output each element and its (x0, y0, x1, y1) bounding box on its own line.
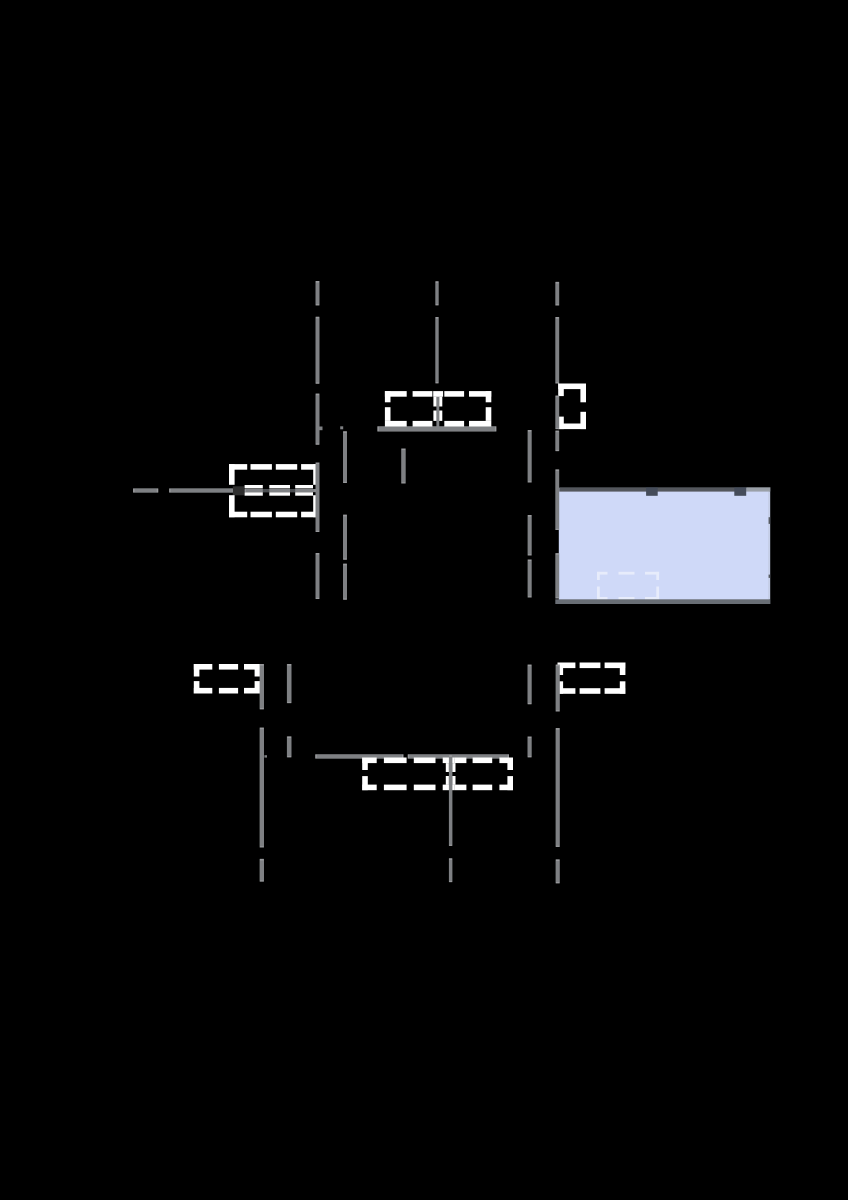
window W1 mid rail (245, 489, 316, 492)
wall left-entry horizontal (133, 488, 233, 492)
room top border light segment (746, 487, 770, 491)
wall top-middle horizontal (377, 426, 496, 431)
room bottom border (555, 599, 770, 604)
wall B top-middle vertical (435, 281, 438, 383)
wall F short stub (401, 449, 406, 484)
junction tick wall A (320, 427, 323, 431)
room top border dark segment (559, 487, 746, 491)
room highlight fill (559, 488, 770, 600)
wall B core through window W2 divider (436, 394, 439, 428)
wall E inner-right vertical (528, 430, 532, 598)
window W1 left double window (229, 464, 316, 517)
window W1 mid rail dark patches (263, 489, 295, 492)
wall H lower-left inner vertical (287, 664, 292, 757)
junction tick wall G (264, 755, 267, 757)
room door notch 2 (734, 487, 746, 496)
wall lower-middle horizontal (315, 754, 509, 759)
room right edge specks (769, 517, 771, 578)
room door notch 1 (646, 487, 658, 496)
wall J lower-right inner vertical (528, 665, 532, 758)
window W6 lower-middle double window (362, 758, 513, 791)
wall G lower-left outer vertical (260, 664, 264, 882)
wall A outer-left vertical (316, 281, 320, 599)
window W4 lower-left window (194, 664, 260, 694)
window W2 top-middle double window (385, 391, 491, 426)
window W5 lower-right window (558, 663, 626, 694)
window W7 dashed box inside room (597, 572, 659, 600)
wall left-entry end block (233, 486, 245, 495)
wall C right vertical (555, 282, 559, 599)
wall K lower-right outer vertical (556, 665, 560, 884)
wall I lower-middle vertical (449, 755, 453, 882)
room right edge tint (768, 492, 770, 600)
window W3 small right window (558, 384, 586, 430)
wall D inner-left vertical (343, 431, 347, 599)
junction tick wall D (340, 426, 343, 429)
